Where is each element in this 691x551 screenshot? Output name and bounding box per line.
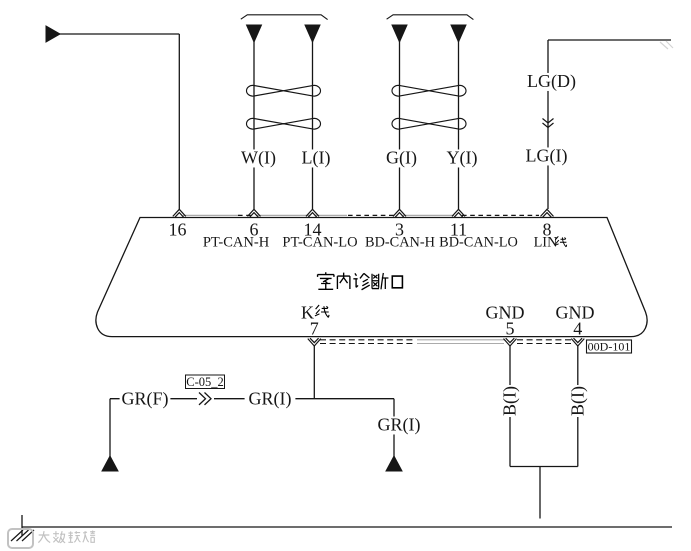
svg-text:B(I): B(I) [500, 386, 521, 416]
svg-text:Y(I): Y(I) [447, 148, 478, 169]
svg-text:4: 4 [573, 319, 582, 339]
svg-text:5: 5 [506, 319, 515, 339]
svg-text:W(I): W(I) [241, 148, 276, 169]
svg-text:G(I): G(I) [386, 148, 417, 169]
svg-text:GR(I): GR(I) [378, 415, 421, 436]
svg-text:BD-CAN-H: BD-CAN-H [365, 235, 435, 251]
svg-text:LIN: LIN [534, 235, 558, 251]
svg-text:BD-CAN-LO: BD-CAN-LO [439, 235, 518, 251]
svg-text:PT-CAN-LO: PT-CAN-LO [282, 235, 357, 251]
svg-text:GR(F): GR(F) [121, 389, 168, 410]
svg-text:B(I): B(I) [567, 386, 588, 416]
svg-text:7: 7 [310, 319, 319, 339]
svg-text:GR(I): GR(I) [249, 389, 292, 410]
svg-text:16: 16 [169, 220, 187, 240]
svg-text:PT-CAN-H: PT-CAN-H [203, 235, 270, 251]
svg-text:00D-101: 00D-101 [588, 340, 631, 354]
svg-text:LG(I): LG(I) [526, 146, 568, 167]
svg-text:LG(D): LG(D) [527, 71, 576, 92]
svg-text:C-05_2: C-05_2 [186, 375, 224, 389]
svg-text:L(I): L(I) [302, 148, 331, 169]
